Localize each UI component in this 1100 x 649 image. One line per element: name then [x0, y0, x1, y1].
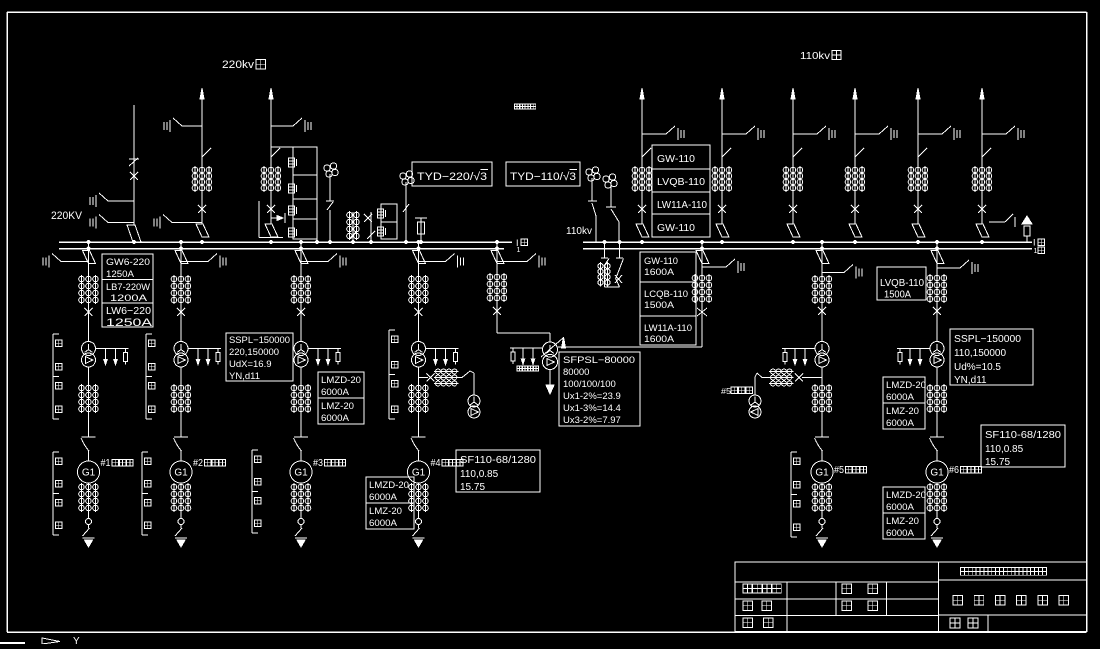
svg-text:#1: #1 — [101, 458, 111, 469]
svg-text:YN,d11: YN,d11 — [229, 371, 260, 382]
svg-text:220kv: 220kv — [222, 59, 255, 71]
svg-text:#4: #4 — [431, 458, 441, 469]
svg-text:LMZ-20: LMZ-20 — [886, 516, 919, 527]
svg-text:LB7-220W: LB7-220W — [106, 282, 150, 293]
svg-text:110kv: 110kv — [800, 50, 831, 62]
svg-text:1600A: 1600A — [644, 267, 675, 278]
svg-text:110,150000: 110,150000 — [954, 348, 1006, 359]
svg-text:LW11A-110: LW11A-110 — [644, 323, 692, 334]
svg-text:LMZD-20: LMZD-20 — [369, 480, 409, 491]
svg-text:G1: G1 — [930, 468, 944, 479]
svg-text:LMZD-20: LMZD-20 — [886, 380, 926, 391]
svg-text:220,150000: 220,150000 — [229, 347, 279, 358]
svg-text:TYD−220/√3: TYD−220/√3 — [417, 171, 487, 183]
svg-text:#2: #2 — [193, 458, 203, 469]
svg-text:110,0.85: 110,0.85 — [985, 444, 1024, 455]
svg-text:6000A: 6000A — [886, 528, 915, 539]
svg-text:1200A: 1200A — [110, 293, 148, 304]
svg-text:6000A: 6000A — [369, 492, 398, 503]
svg-text:Ux3-2%=7.97: Ux3-2%=7.97 — [563, 415, 621, 426]
svg-text:YN,d11: YN,d11 — [954, 375, 987, 386]
svg-text:1250A: 1250A — [106, 317, 153, 329]
svg-text:SF110-68/1280: SF110-68/1280 — [985, 430, 1061, 441]
svg-text:Ux1-2%=23.9: Ux1-2%=23.9 — [563, 391, 621, 402]
svg-text:220KV: 220KV — [51, 210, 83, 222]
svg-text:1: 1 — [517, 247, 521, 254]
svg-text:GW-110: GW-110 — [657, 223, 695, 234]
svg-text:G1: G1 — [82, 468, 96, 479]
svg-text:SFPSL−80000: SFPSL−80000 — [563, 355, 635, 366]
svg-text:G1: G1 — [815, 468, 829, 479]
svg-text:GW-110: GW-110 — [644, 256, 678, 267]
svg-text:#3: #3 — [313, 458, 323, 469]
svg-text:LW6−220: LW6−220 — [106, 305, 151, 317]
svg-text:6000A: 6000A — [886, 392, 915, 403]
svg-text:6000A: 6000A — [321, 413, 350, 424]
svg-text:80000: 80000 — [563, 367, 589, 378]
svg-text:15.75: 15.75 — [460, 482, 485, 493]
svg-text:LMZD-20: LMZD-20 — [321, 375, 361, 386]
svg-text:6000A: 6000A — [886, 418, 915, 429]
svg-text:1500A: 1500A — [644, 300, 675, 311]
svg-text:SSPL−150000: SSPL−150000 — [229, 335, 290, 346]
svg-text:TYD−110/√3: TYD−110/√3 — [510, 171, 576, 183]
svg-text:LVQB-110: LVQB-110 — [657, 177, 705, 188]
svg-text:I: I — [1033, 238, 1036, 248]
svg-text:LMZ-20: LMZ-20 — [886, 406, 919, 417]
svg-text:Ux1-3%=14.4: Ux1-3%=14.4 — [563, 403, 621, 414]
svg-text:SF110-68/1280: SF110-68/1280 — [460, 455, 536, 466]
svg-text:GW-110: GW-110 — [657, 154, 695, 165]
svg-text:LCQB-110: LCQB-110 — [644, 289, 688, 300]
svg-text:1250A: 1250A — [106, 269, 135, 280]
svg-text:Y: Y — [73, 636, 80, 644]
svg-text:#5: #5 — [721, 387, 732, 396]
svg-text:6000A: 6000A — [369, 518, 398, 529]
svg-text:LW11A-110: LW11A-110 — [657, 200, 707, 211]
svg-text:1600A: 1600A — [644, 334, 675, 345]
svg-text:G1: G1 — [294, 468, 308, 479]
svg-text:LVQB-110: LVQB-110 — [880, 278, 924, 289]
svg-text:UdX=16.9: UdX=16.9 — [229, 359, 272, 370]
svg-text:110,0.85: 110,0.85 — [460, 469, 499, 480]
svg-text:G1: G1 — [174, 468, 188, 479]
svg-text:LMZD-20: LMZD-20 — [886, 490, 926, 501]
svg-text:110kv: 110kv — [566, 225, 593, 237]
svg-text:6000A: 6000A — [321, 387, 350, 398]
svg-text:GW6-220: GW6-220 — [106, 257, 150, 268]
svg-text:1500A: 1500A — [884, 290, 911, 301]
svg-text:1: 1 — [1034, 248, 1038, 255]
svg-text:100/100/100: 100/100/100 — [563, 379, 616, 390]
svg-text:LMZ-20: LMZ-20 — [321, 401, 354, 412]
svg-text:#6: #6 — [949, 465, 959, 476]
svg-text:#5: #5 — [834, 465, 844, 476]
svg-text:Ud%=10.5: Ud%=10.5 — [954, 362, 1001, 373]
svg-text:LMZ-20: LMZ-20 — [369, 506, 402, 517]
svg-text:15.75: 15.75 — [985, 457, 1010, 468]
svg-text:SSPL−150000: SSPL−150000 — [954, 334, 1021, 345]
svg-text:6000A: 6000A — [886, 502, 915, 513]
